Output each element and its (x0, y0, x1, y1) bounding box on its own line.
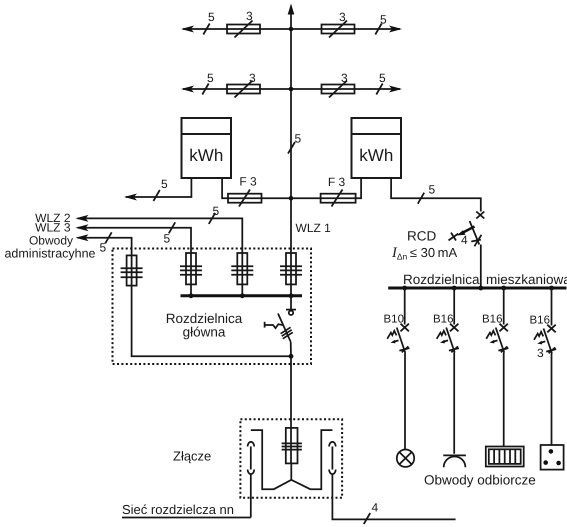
cooker socket load (541, 445, 564, 470)
heater load (486, 447, 524, 467)
RCD (449, 212, 485, 289)
arrow obwody adm (76, 234, 89, 241)
svg-text:5: 5 (213, 204, 220, 218)
fuse vertical 1 (121, 255, 143, 285)
wire row1 horizontal (183, 28, 400, 30)
svg-text:kWh: kWh (359, 146, 393, 165)
wire to zlacze (290, 356, 292, 463)
arrow up top (288, 4, 295, 15)
node row1 junction (289, 27, 294, 32)
wire obwody adm (78, 238, 132, 286)
wire left meter left leg (126, 178, 191, 197)
svg-text:główna: główna (183, 325, 226, 340)
svg-text:5: 5 (207, 71, 214, 85)
svg-text:RCD: RCD (407, 229, 436, 244)
svg-text:4: 4 (461, 233, 468, 247)
breaker B16 no2 (437, 286, 459, 454)
slash row2 right (376, 84, 382, 95)
node meter line junction (289, 196, 294, 201)
svg-text:5: 5 (429, 183, 436, 197)
slash WLZ2 (209, 213, 215, 224)
svg-text:3: 3 (341, 71, 348, 85)
wire left meter right leg (222, 178, 291, 198)
wire WLZ3 (78, 228, 192, 253)
svg-text:F 3: F 3 (239, 175, 257, 189)
wire right meter right leg to RCD (391, 178, 481, 212)
hook right top (329, 442, 336, 447)
svg-text:5: 5 (379, 71, 386, 85)
fuse zlacze (282, 428, 302, 464)
fuse F3 left (228, 194, 262, 203)
node busbar f3 (240, 293, 245, 298)
wire siec rozdzielcza (122, 517, 251, 519)
svg-text:3: 3 (249, 71, 256, 85)
svg-text:B16: B16 (530, 315, 550, 327)
slash obwody adm (105, 232, 111, 243)
svg-text:5: 5 (380, 13, 387, 27)
breaker B10 (387, 286, 409, 450)
svg-text:B10: B10 (384, 314, 404, 326)
svg-text:mieszkaniowa: mieszkaniowa (486, 272, 567, 287)
fuse row1 right (322, 25, 355, 34)
box Rozdzielnica glowna dotted (113, 249, 312, 365)
wire left down to siec (250, 474, 252, 518)
svg-text:WLZ 3: WLZ 3 (35, 221, 71, 235)
hook left top (248, 442, 255, 447)
fuse F3 right (321, 194, 356, 203)
meter kWh left (182, 118, 232, 178)
wire WLZ2 (78, 218, 243, 253)
slash row1 right (375, 24, 381, 35)
svg-text:WLZ 1: WLZ 1 (296, 221, 332, 235)
slash left meter feed (153, 190, 159, 201)
arrow WLZ2 (76, 215, 89, 222)
fuse vertical 4 WLZ1 (280, 253, 302, 296)
svg-text:Sieć rozdzielcza nn: Sieć rozdzielcza nn (122, 502, 234, 517)
svg-text:kWh: kWh (189, 146, 223, 165)
meter kWh right (352, 118, 402, 178)
zlacze inner frame (251, 430, 333, 489)
arrow right row2 (389, 86, 402, 93)
svg-text:5: 5 (164, 232, 171, 246)
switch main (rozlacznik) (265, 296, 296, 357)
node busbar f2 (189, 293, 194, 298)
fuse row1 left (227, 25, 260, 34)
slash bottom feeder (364, 513, 370, 524)
slash WLZ1 mid (288, 142, 295, 154)
svg-text:F 3: F 3 (328, 175, 346, 189)
fuse row2 left (227, 85, 260, 94)
node bb2 rcd (478, 286, 483, 291)
svg-text:administracyhne: administracyhne (4, 247, 95, 261)
svg-text:Złącze: Złącze (173, 449, 211, 464)
wire right between hooks (331, 447, 333, 470)
svg-text:4: 4 (372, 501, 379, 515)
svg-text:Rozdzielnica: Rozdzielnica (403, 272, 480, 287)
box Zlacze dotted (240, 419, 342, 498)
svg-text:3: 3 (537, 346, 544, 360)
svg-text:Obwody: Obwody (29, 234, 73, 248)
wire row2 horizontal (183, 88, 400, 90)
arrow right row1 (389, 26, 402, 33)
hook left bottom (248, 470, 255, 475)
arrow left meter feed (124, 194, 137, 201)
breaker B16 no3 (486, 286, 508, 447)
svg-text:B16: B16 (433, 314, 453, 326)
wire WLZ1 main vertical (290, 12, 292, 254)
arrow left row1 (181, 26, 194, 33)
fuse vertical 3 (231, 253, 253, 296)
breaker B16 no4 (534, 286, 556, 445)
hook right bottom (329, 470, 336, 475)
busbar mieszkaniowa (388, 287, 566, 290)
busbar glowna (181, 294, 303, 297)
wire left between hooks (250, 447, 252, 470)
fuse row2 right (322, 85, 355, 94)
slash RCD feed (418, 193, 424, 204)
node row2 junction (289, 87, 294, 92)
svg-text:3: 3 (246, 9, 253, 23)
svg-text:5: 5 (295, 132, 302, 146)
wire fuse1 bottom to switch bottom (132, 286, 291, 357)
slash row2 left (202, 84, 208, 95)
svg-text:5: 5 (100, 241, 107, 255)
wire zlacze fuse to frame (290, 463, 292, 480)
node switch bottom (289, 354, 294, 359)
fuse vertical 2 (180, 253, 202, 296)
wire right down (332, 474, 455, 519)
slash WLZ3 (169, 222, 175, 233)
svg-text:Obwody odbiorcze: Obwody odbiorcze (424, 473, 536, 488)
slash row1 left (203, 24, 209, 35)
svg-text:B16: B16 (482, 314, 502, 326)
svg-text:5: 5 (161, 177, 168, 191)
socket load (443, 455, 466, 467)
svg-text:3: 3 (339, 10, 346, 24)
svg-text:5: 5 (208, 10, 215, 24)
arrow left row2 (181, 86, 194, 93)
arrow WLZ3 (76, 224, 89, 231)
wire right meter left leg (291, 178, 361, 198)
node busbar switch (289, 293, 294, 298)
lamp load (397, 450, 414, 467)
